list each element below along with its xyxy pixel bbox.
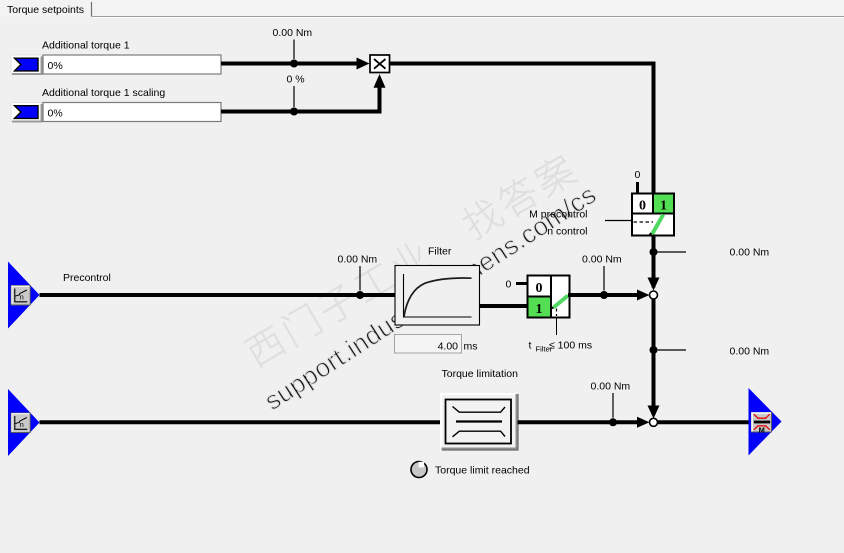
svg-text:0.00 Nm: 0.00 Nm	[591, 381, 631, 393]
switch S1	[632, 194, 674, 236]
tap line up	[603, 266, 605, 291]
filter block F1	[395, 266, 480, 326]
wire: field P1 to multiplier	[221, 62, 357, 66]
arrowhead right into summing node A2	[637, 417, 650, 428]
multiplier X1	[370, 55, 390, 73]
svg-text:0%: 0%	[48, 60, 63, 72]
svg-text:4.00: 4.00	[438, 341, 459, 353]
svg-text:0: 0	[506, 279, 512, 291]
svg-text:0: 0	[639, 199, 646, 214]
wire: T2 to torque limiter	[40, 420, 442, 424]
svg-text:Filter: Filter	[428, 246, 452, 258]
svg-text:n control: n control	[547, 226, 587, 238]
arrowhead into multiplier left	[357, 58, 370, 70]
input port triangle T1 (Precontrol)	[8, 262, 40, 329]
annotation line from S2 bottom	[556, 318, 558, 336]
edit field P1: 0%	[43, 55, 221, 74]
junction node below S1	[650, 248, 658, 256]
summing node A2	[650, 418, 658, 426]
parameter field: 4.00 ms	[395, 335, 478, 354]
junction node on S2 output	[600, 291, 608, 299]
label: t_Filter <= 100 ms	[529, 340, 593, 354]
stub wire 0-input of S2	[516, 282, 528, 285]
svg-text:0.00 Nm: 0.00 Nm	[730, 247, 770, 259]
measurement tap line: 0.00 Nm (top)	[293, 40, 295, 60]
svg-text:0: 0	[536, 281, 543, 296]
BICO input button B1 (blue flag)	[11, 55, 42, 74]
svg-text:Additional torque 1: Additional torque 1	[42, 40, 130, 52]
svg-text:Torque limit reached: Torque limit reached	[435, 465, 530, 477]
svg-text:1: 1	[536, 302, 543, 317]
LED indicator: Torque limit reached	[411, 462, 427, 478]
tap line below 0 %	[293, 86, 295, 107]
svg-text:Torque limitation: Torque limitation	[442, 368, 519, 380]
svg-text:M precontrol: M precontrol	[529, 209, 587, 221]
svg-text:n: n	[20, 293, 24, 302]
tap line right of junction	[658, 251, 687, 253]
switch S2	[528, 276, 570, 318]
junction node on wire 1	[290, 60, 298, 68]
tap line up	[359, 266, 361, 291]
svg-text:0: 0	[635, 169, 641, 181]
svg-text:0.00 Nm: 0.00 Nm	[582, 254, 622, 266]
output port triangle T3 (torque setpoint to motor)	[749, 388, 782, 456]
svg-text:n: n	[20, 420, 24, 429]
wire: switch S1 down to summing node A1	[652, 236, 656, 288]
arrowhead right into summing node A1	[637, 290, 650, 301]
svg-text:ms: ms	[464, 341, 478, 353]
watermark (diagonal site slogan)	[242, 152, 601, 416]
control line into switch S1	[605, 220, 632, 222]
tap line right	[658, 349, 687, 351]
svg-text:Torque setpoints: Torque setpoints	[7, 4, 84, 16]
wire: filter output to switch S2	[480, 304, 528, 308]
svg-text:≤ 100 ms: ≤ 100 ms	[549, 340, 592, 352]
svg-text:t: t	[529, 340, 532, 352]
tab label: Torque setpoints	[7, 2, 844, 18]
svg-text:Precontrol: Precontrol	[63, 272, 111, 284]
arrowhead up into multiplier	[374, 74, 386, 88]
arrowhead down into summing node A1	[648, 278, 660, 291]
summing node A1	[650, 291, 658, 299]
BICO input button B2 (blue flag)	[11, 103, 42, 122]
wire: Precontrol to filter	[40, 293, 396, 297]
arrowhead down into summing node A2	[648, 406, 660, 419]
wire: limiter output to summing node A2	[518, 420, 639, 424]
input port triangle T2	[8, 389, 40, 456]
svg-text:M: M	[759, 425, 765, 434]
edit field P2: 0%	[43, 103, 221, 122]
torque limiter block L1	[441, 394, 518, 451]
stub wire 0-input of S1	[636, 182, 639, 193]
svg-text:0.00 Nm: 0.00 Nm	[730, 346, 770, 358]
junction node on wire 2	[290, 108, 298, 116]
svg-text:0.00 Nm: 0.00 Nm	[273, 27, 313, 39]
svg-text:0%: 0%	[48, 107, 63, 119]
svg-text:0 %: 0 %	[287, 74, 305, 86]
wire: multiplier output to switch S1 (top path)	[390, 64, 654, 194]
junction node on limiter output	[609, 418, 617, 426]
wire: summing node A2 to output port	[658, 420, 749, 424]
tap line up	[612, 393, 614, 418]
wire: switch S2 output to summing node A1	[568, 293, 639, 297]
svg-text:Additional torque 1 scaling: Additional torque 1 scaling	[42, 87, 165, 99]
wire: summing node A1 down to summing node A2	[652, 299, 656, 415]
svg-text:1: 1	[660, 199, 667, 214]
junction node on precontrol wire	[356, 291, 364, 299]
wire: field P2 to multiplier bottom	[221, 88, 380, 112]
junction node mid spine	[650, 346, 658, 354]
svg-text:0.00 Nm: 0.00 Nm	[338, 254, 378, 266]
